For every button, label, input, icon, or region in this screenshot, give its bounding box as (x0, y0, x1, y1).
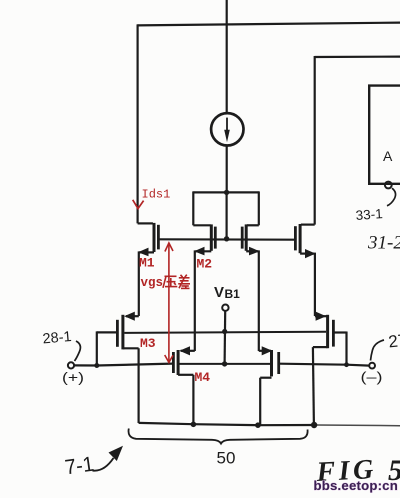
M1 source arrow (138, 248, 149, 257)
svg-text:M1: M1 (139, 256, 155, 271)
label VB1 (214, 284, 240, 301)
wire (-) input line to M4R gate (280, 364, 369, 366)
svg-text:bbs.eetop:cn: bbs.eetop:cn (314, 478, 398, 493)
node: gate rail junction dot (224, 236, 229, 241)
wire bottom rail (139, 423, 316, 425)
svg-text:27: 27 (387, 331, 400, 352)
M3R source arrow (316, 312, 327, 321)
current source I1 (211, 113, 243, 145)
brace under stage 50 (129, 429, 308, 444)
node bottom rail dot 3 (311, 422, 317, 428)
svg-text:M2: M2 (197, 257, 213, 272)
node: tail junction dot (224, 190, 229, 195)
M5 source arrow (305, 249, 316, 258)
leader 28-1 (75, 341, 81, 361)
current source arrowhead (224, 130, 230, 142)
wire bottom rail faint extension (316, 424, 400, 427)
svg-text:vgs: vgs (141, 276, 164, 290)
red hanzi CHA (difference) (178, 275, 190, 289)
svg-text:31-2: 31-2 (367, 233, 400, 254)
wire right vertical to M5 drain (314, 56, 316, 225)
transistor M3 (bottom left) (97, 315, 139, 423)
M4R source arrow (262, 346, 273, 355)
svg-text:M4: M4 (195, 370, 211, 385)
wire left vertical to M1 drain (137, 24, 139, 223)
wire VB1 bias rail upper (M3 gates level) (124, 332, 326, 333)
wire current source to tail node (226, 146, 228, 193)
red vgs arrow top head (165, 243, 173, 252)
wire top feed vertical to current source (226, 0, 228, 114)
label FIG 5 (315, 454, 400, 488)
M2 source arrow (194, 247, 205, 256)
wire VB1 bias rail lower (M4 gates level) (180, 363, 271, 365)
transistor M4 (inner bottom left) (173, 350, 194, 424)
red arrowhead Ids1 (points down along wire) (133, 200, 144, 209)
svg-text:B1: B1 (225, 287, 241, 301)
transistor M2 (193, 191, 215, 351)
wire VB1 stem (224, 311, 227, 364)
leader 33-1 (387, 188, 396, 206)
red vgs arrow bottom head (165, 355, 173, 362)
terminal circle on box A (385, 182, 392, 189)
node (+) input junction dot (94, 363, 99, 368)
svg-text:50: 50 (217, 449, 236, 468)
M2b source arrow (249, 247, 260, 256)
SECTION: top wires (137, 0, 400, 240)
transistor M3R (bottom right) (313, 315, 347, 425)
node VB1 upper dot (222, 329, 227, 334)
svg-text:V: V (214, 284, 224, 301)
node VB1 lower dot (222, 361, 227, 366)
transistor M1 (138, 223, 159, 316)
node bottom rail dot 2 (255, 422, 261, 428)
red vgs double arrow shaft (168, 244, 170, 362)
wire right rail (315, 55, 400, 58)
svg-text:33-1: 33-1 (355, 206, 383, 223)
M3 source arrow (points into channel) (124, 312, 135, 321)
svg-text:Ids1: Ids1 (142, 188, 171, 202)
wire link tail node to gate rail (226, 192, 228, 239)
terminal (+) input circle (68, 362, 74, 368)
svg-text:7-1: 7-1 (63, 453, 95, 480)
box A (amplifier block 33) (369, 86, 400, 184)
red hanzi YA (pressure) (163, 276, 177, 288)
wire top rail (137, 23, 400, 26)
svg-text:A: A (383, 148, 393, 164)
leader arrow 7-1 (93, 458, 114, 471)
M4 source arrow (179, 346, 190, 355)
svg-text:(–): (–) (361, 370, 383, 385)
terminal (-) input circle (369, 363, 375, 369)
svg-text:M3: M3 (140, 336, 156, 351)
node (-) input junction dot (344, 362, 349, 367)
wire gate rail (158, 238, 295, 241)
svg-text:(+): (+) (62, 370, 84, 385)
transistor M5 (top right) (295, 224, 315, 316)
transistor M2b (inner right of top pair) (242, 191, 259, 351)
svg-text:28-1: 28-1 (42, 329, 72, 347)
terminal VB1 circle (222, 305, 228, 311)
wire mid rail (drains of M2 pair) (193, 191, 259, 193)
leader 27 (371, 340, 385, 361)
leader arrowhead 7-1 (109, 446, 124, 461)
watermark bbs.eetop.cn (314, 478, 398, 493)
transistor M4R (inner bottom right) (259, 350, 279, 425)
wire (+) input line to M4 gate (74, 364, 172, 366)
node bottom rail dot 1 (191, 422, 197, 428)
